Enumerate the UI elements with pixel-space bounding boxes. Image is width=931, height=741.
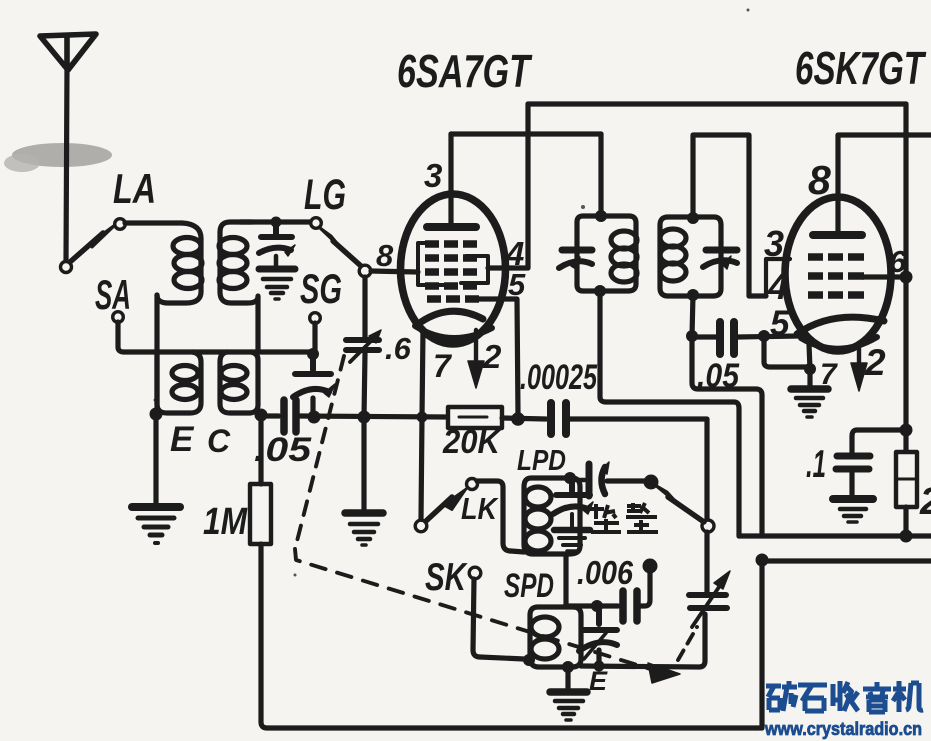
capacitor SPD shunt top plate: [582, 606, 617, 630]
junction SPD top: [591, 600, 603, 612]
6SK7 anode plate bar: [813, 231, 862, 239]
resistor 20K body: [448, 407, 502, 428]
wire LK upper to LPD coil: [477, 481, 524, 552]
svg-text:SA: SA: [95, 271, 131, 318]
wire to ground below SPD: [565, 667, 570, 688]
ground below oscillator trimmer column: [345, 513, 383, 545]
antenna symbol: [40, 34, 96, 70]
coil LG (antenna secondary): [219, 222, 258, 303]
resistor 2M body: [896, 452, 917, 507]
6SA7 pin 5 wire: [479, 299, 518, 414]
wire antenna lead: [66, 66, 67, 261]
IF transformer tank 1 frame: [577, 216, 636, 291]
wire .00025 to padder switch: [570, 419, 707, 520]
wire LG coil top to LG contact: [240, 219, 310, 224]
switch LK arm: [426, 497, 452, 521]
return bus to right edge: [762, 558, 931, 563]
svg-text:5: 5: [508, 267, 526, 302]
wire LA coil bottom down to node E column: [154, 295, 159, 411]
coil E (oscillator primary): [157, 352, 201, 413]
wire LA contact to antenna coil: [125, 220, 182, 225]
svg-text:LK: LK: [461, 491, 499, 526]
wire padder capacitor to switch arm node: [607, 478, 645, 483]
svg-text:2: 2: [864, 342, 886, 383]
6SA7 pin 4 wire to B+ rail: [488, 104, 528, 268]
svg-text:E: E: [589, 666, 608, 696]
wire B+ rail down through pin6: [903, 104, 908, 452]
wire node 8 down to trimmer: [362, 277, 367, 337]
6SK7 pin 2 arrow: [857, 343, 861, 365]
capacitor .05 grid plates: [720, 322, 734, 354]
svg-text:C: C: [207, 423, 231, 459]
switch arm padder: [668, 497, 704, 522]
6SA7 pin 2 arrow: [474, 330, 478, 363]
junction .1 branch: [900, 424, 913, 437]
6SK7 grid row 3: [808, 291, 864, 299]
wire ground stub below junction: [361, 417, 366, 509]
label-none: SA contact: [113, 312, 124, 323]
wire return column down to bottom rail: [757, 561, 762, 728]
6SA7 cathode dome arc: [421, 311, 483, 322]
capacitor LPD shunt curved plate: [553, 506, 588, 514]
coil LA (antenna primary): [157, 223, 202, 303]
wire pin5 to pin7 loop: [764, 336, 808, 367]
capacitor .00025 plates: [551, 403, 566, 434]
ground below E: [132, 507, 180, 543]
contact SG: [310, 313, 321, 324]
switch contact LG: [311, 218, 322, 229]
junction pin6: [900, 271, 913, 284]
wire .1 to ground: [849, 473, 854, 495]
6SK7 pin 6 wire: [862, 274, 906, 279]
capacitor padder series (dianzheng): [575, 478, 585, 482]
wire SG capacitor to bus: [310, 398, 315, 414]
coil C (oscillator secondary): [220, 352, 258, 413]
wire node 8 to 6SA7 grid pin: [371, 271, 418, 272]
6SK7 grid row 2: [808, 272, 864, 280]
svg-text:.6: .6: [385, 331, 412, 366]
6SA7 heater arc: [415, 326, 492, 338]
svg-text:7: 7: [433, 348, 453, 384]
ground 6SK7 cathode: [791, 389, 828, 417]
wire SK to SPD coil bottom: [473, 579, 524, 659]
6SA7 pin 3 plate lead: [448, 134, 453, 225]
wire SA to oscillator coil top: [118, 322, 312, 352]
contact SK: [469, 567, 481, 579]
IF tank 1 variable capacitor plates: [562, 247, 592, 254]
svg-text:.05: .05: [697, 357, 740, 395]
junction pin7 on bus: [417, 412, 428, 423]
capacitor SPD shunt curved plate: [579, 642, 617, 651]
capacitor .006 plates: [623, 591, 637, 621]
switch SA-LA arm: [70, 233, 103, 262]
6SA7 grid row 4: [425, 282, 477, 290]
svg-text:6SA7GT: 6SA7GT: [397, 45, 533, 97]
capacitor C .05 series plates: [284, 400, 296, 432]
contact LK lower: [415, 520, 427, 532]
wire 1M to bottom rail: [261, 544, 757, 728]
junction SPD bottom cap: [594, 661, 605, 672]
contact LK upper: [467, 479, 478, 490]
svg-text:3: 3: [424, 157, 442, 194]
wire LPD bottom to SPD top: [563, 554, 568, 606]
wire SPD tank bottom: [581, 614, 705, 667]
svg-text:.006: .006: [577, 554, 634, 591]
variable capacitor SPD tuning plates: [689, 595, 727, 608]
wire SPD tank top: [566, 603, 618, 608]
svg-text:SG: SG: [300, 265, 342, 312]
wire .05 node down to AGC bus: [692, 336, 762, 533]
6SA7 anode plate bar: [427, 223, 476, 231]
tube 6SK7GT envelope: [785, 197, 891, 351]
junction resistor-bus: [900, 530, 913, 543]
switch LG arm to grid node 8: [333, 241, 361, 266]
junction pin5-20K: [511, 412, 525, 426]
6SA7 grid row 2: [425, 254, 477, 262]
coil LPD: [524, 478, 580, 554]
junction IF tank1 top: [595, 210, 607, 222]
svg-text:.00025: .00025: [520, 358, 597, 397]
wire screen rail to IF tank 2: [693, 135, 766, 296]
junction on LG wire: [271, 217, 282, 228]
wire variable capacitor to switch contact: [704, 532, 709, 592]
6SK7 grid row 1: [808, 253, 864, 261]
dashed gang coupling line: [295, 356, 697, 672]
6SK7 pin 8 lead: [838, 135, 931, 233]
6SA7 inner grid frame right: [461, 256, 488, 283]
svg-text:3: 3: [764, 223, 784, 264]
svg-text:SK: SK: [425, 556, 468, 599]
contact 8 (6SA7 grid): [359, 265, 371, 277]
svg-text:LG: LG: [304, 171, 346, 219]
junction IF tank2 bottom: [687, 289, 699, 301]
wire IF tank2 bottom to .05 node: [692, 295, 693, 336]
wire screen rail down to IF tank 1: [598, 134, 603, 212]
6SA7 grid row 5: [427, 295, 479, 303]
watermark kuangshi shouyinji (crystalradio): [766, 681, 923, 712]
svg-text:5: 5: [770, 304, 790, 343]
wire IF tank1 bottom to AVC line: [600, 291, 739, 536]
wire trimmer to bus junction: [364, 353, 365, 417]
wire resistor to bus: [903, 507, 908, 536]
AVC bus lower: [739, 533, 931, 538]
screen rail from 6SA7 pin 3: [451, 131, 601, 136]
svg-text:4: 4: [767, 266, 788, 307]
terminal band switch stub: [643, 559, 658, 574]
trimmer capacitor oscillator plates: [346, 340, 379, 350]
svg-text:LA: LA: [113, 165, 156, 212]
node C junction: [255, 409, 268, 422]
IF tank 2 coil loops: [660, 229, 686, 281]
arrowhead on gang line: [648, 663, 680, 683]
junction pin5: [758, 330, 770, 342]
svg-text:6: 6: [889, 244, 907, 279]
capacitor LPD shunt top plate: [556, 478, 590, 495]
6SK7 grid frame pins 3-4: [766, 259, 790, 296]
wire .05 node to plates: [692, 334, 716, 339]
ground below SPD (node E): [550, 692, 587, 720]
svg-text:2: 2: [482, 338, 502, 375]
junction IF tank1 bottom: [594, 285, 606, 297]
resistor 1M body: [250, 484, 271, 544]
bus wire 20K to junction: [502, 418, 546, 419]
supply rail top: [528, 101, 906, 106]
node E junction: [150, 408, 163, 421]
svg-text:1M: 1M: [203, 501, 248, 543]
junction SPD ground tap: [562, 661, 574, 673]
svg-text:www.crystalradio.cn: www.crystalradio.cn: [764, 719, 922, 739]
junction SK-SPD: [523, 654, 535, 666]
svg-text:7: 7: [820, 358, 838, 391]
junction pin7: [804, 363, 816, 375]
variable capacitor arrow: [692, 587, 719, 627]
junction IF tank2 top: [687, 212, 699, 224]
trimmer capacitor on LG wire top plate: [261, 226, 292, 237]
6SA7 inner grid frame left: [418, 243, 446, 285]
wire .1 branch: [852, 430, 906, 452]
capacitor SG top plate: [295, 354, 331, 374]
main bus wire .05 to 20K resistor: [300, 416, 448, 417]
svg-text:8: 8: [808, 157, 831, 203]
coil SPD: [530, 607, 581, 667]
tube 6SA7GT envelope: [401, 194, 506, 344]
junction at oscillator grid column: [358, 411, 371, 424]
trimmer capacitor curved plate: [259, 248, 291, 253]
paper specks: [154, 9, 750, 577]
IF transformer tank 2 frame: [660, 217, 721, 296]
value dianzheng (padder) hand glyphs: [590, 503, 658, 532]
trimmer arrow: [350, 338, 374, 362]
6SA7 pin 7 cathode lead to LK: [421, 330, 423, 520]
switch contact LA: [115, 219, 126, 230]
wire .006 to band terminal: [641, 572, 650, 606]
terminal antenna bottom: [61, 262, 72, 273]
ground below LG trimmer: [259, 256, 295, 299]
switch contact padder throw: [702, 520, 714, 532]
capacitor SG curved plate: [293, 389, 329, 397]
junction SG on oscillator wire: [307, 348, 319, 360]
6SK7 pin 7 stub: [809, 344, 810, 385]
junction .05 grid node: [686, 330, 698, 342]
scanner smudge top-left: [4, 143, 112, 172]
svg-text:LPD: LPD: [517, 445, 566, 477]
6SK7 heater arc: [801, 337, 877, 349]
ground inside LPD tank: [554, 514, 590, 551]
wire E to ground: [153, 414, 158, 504]
wire SG down to junction: [312, 323, 317, 352]
junction LPD top: [564, 472, 576, 484]
svg-text:20K: 20K: [442, 423, 502, 461]
IF tank 1 coil loops: [611, 231, 637, 282]
svg-text:2: 2: [919, 481, 931, 523]
6SK7 cathode dome arc: [797, 317, 884, 334]
wire SPD shunt capacitor to tank bottom: [596, 650, 601, 665]
wire C node down to 1M: [258, 415, 263, 484]
svg-text:E: E: [170, 420, 195, 459]
junction AVC-return column: [756, 554, 769, 567]
IF tank 2 variable capacitor plates: [706, 247, 737, 254]
capacitor .1 plates: [836, 456, 870, 469]
svg-text:6SK7GT: 6SK7GT: [795, 42, 927, 94]
svg-text:8: 8: [376, 238, 394, 273]
6SA7 grid row 3: [425, 268, 477, 276]
svg-text:.1: .1: [806, 443, 826, 486]
main bus wire C node to .05 capacitor: [261, 413, 279, 418]
junction padder arm pivot: [644, 475, 659, 490]
ground below .1: [833, 499, 873, 522]
wire LG coil bottom down: [255, 296, 260, 352]
svg-text:SPD: SPD: [504, 567, 554, 605]
wire .05 to 6SK7 pin5: [738, 336, 798, 337]
junction SG-cap on bus: [308, 411, 321, 424]
6SA7 grid row 1: [425, 240, 477, 248]
svg-text:.05: .05: [254, 431, 312, 469]
